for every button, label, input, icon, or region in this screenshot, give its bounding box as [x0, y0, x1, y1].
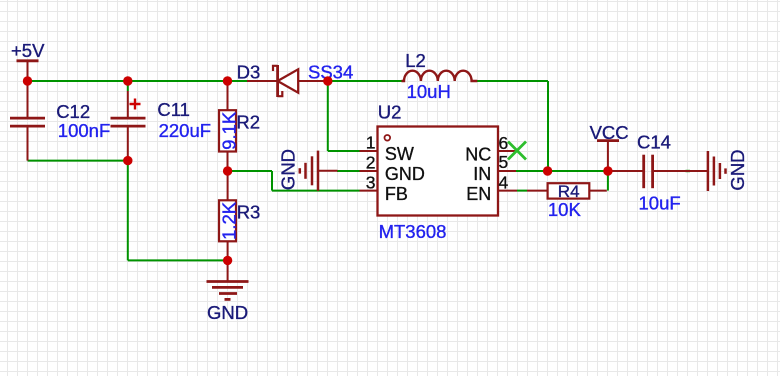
resistor R4 [527, 182, 607, 220]
wire GND to pin 2 [337, 170, 360, 172]
no-connect X on pin 6 [508, 142, 526, 160]
inductor L2 [402, 50, 478, 102]
svg-text:5: 5 [499, 152, 509, 172]
svg-text:NC: NC [465, 144, 491, 164]
power +5V [11, 40, 45, 81]
wire D3 to L2 [328, 80, 402, 82]
wire stub under C11 junction [127, 81, 129, 91]
wire IN node horizontal [515, 170, 608, 172]
svg-text:9.1K: 9.1K [218, 111, 239, 150]
junction IN node [543, 166, 552, 175]
svg-text:10uF: 10uF [639, 193, 681, 214]
wire L2 to corner [477, 80, 548, 82]
pin 6 NC [465, 133, 517, 165]
junction R2-R3 FB node [223, 166, 232, 175]
ground symbol right [708, 149, 748, 191]
svg-text:D3: D3 [237, 62, 261, 83]
svg-text:GND: GND [385, 164, 425, 184]
junction R2 top [223, 76, 232, 85]
junction VCC node [603, 166, 612, 175]
pin 4 EN [466, 172, 517, 204]
svg-text:1: 1 [366, 133, 376, 153]
svg-text:6: 6 [499, 133, 509, 153]
svg-text:GND: GND [727, 149, 748, 190]
wire FB node down [271, 171, 273, 191]
wire SS34 node down [327, 81, 329, 151]
wire FB node right [228, 170, 272, 172]
svg-text:R3: R3 [237, 201, 261, 222]
svg-text:10uH: 10uH [407, 81, 451, 102]
wire R4 to VCC node [607, 171, 609, 191]
svg-text:3: 3 [366, 172, 376, 192]
svg-text:IN: IN [473, 164, 491, 184]
op-amp U2 MT3608 body [378, 102, 499, 242]
resistor R2 [218, 81, 260, 171]
svg-text:C12: C12 [56, 101, 90, 122]
pin 3 FB [360, 172, 408, 204]
svg-text:+5V: +5V [11, 40, 45, 61]
capacitor C12 [10, 81, 110, 161]
ground symbol left of U2 [277, 149, 337, 191]
wire to R3 bottom [128, 259, 228, 261]
svg-text:100nF: 100nF [58, 120, 110, 141]
pin 5 IN [473, 152, 516, 184]
svg-text:C11: C11 [157, 99, 190, 120]
pin 2 GND [360, 153, 425, 184]
svg-text:U2: U2 [378, 102, 402, 123]
wire top rail +5V to D3 [28, 80, 248, 82]
junction R3 bottom [223, 256, 232, 265]
svg-text:VCC: VCC [590, 122, 629, 143]
svg-text:EN: EN [466, 184, 491, 204]
ground symbol bottom [207, 260, 249, 322]
pin 1 SW [360, 133, 414, 165]
svg-text:C14: C14 [637, 132, 671, 153]
wire to pin 3 FB [272, 190, 360, 192]
svg-text:220uF: 220uF [159, 120, 211, 141]
wire stub pin 4 [517, 190, 527, 192]
junction C11 top [123, 76, 132, 85]
svg-text:MT3608: MT3608 [379, 221, 447, 242]
capacitor C14 [608, 132, 708, 214]
wire corner down to IN node [547, 81, 549, 171]
junction C11 bottom [123, 156, 132, 165]
diode D3 SS34 [237, 61, 354, 97]
resistor R3 [218, 171, 260, 260]
svg-text:2: 2 [366, 153, 376, 173]
wire bottom left horizontal [28, 160, 128, 162]
junction +5V [23, 76, 32, 85]
wire to pin 1 SW [328, 150, 360, 152]
junction SS34 node [323, 76, 332, 85]
svg-text:1.2K: 1.2K [218, 201, 239, 240]
svg-text:GND: GND [207, 302, 248, 323]
svg-text:R2: R2 [236, 112, 260, 133]
capacitor C11 [111, 91, 212, 161]
wire stub C14 gnd [686, 170, 691, 172]
svg-text:FB: FB [385, 184, 408, 204]
svg-text:SW: SW [385, 144, 414, 164]
wire bottom left down [127, 161, 129, 261]
power VCC [590, 122, 629, 171]
svg-text:GND: GND [277, 149, 298, 190]
svg-text:4: 4 [499, 172, 509, 192]
svg-text:10K: 10K [548, 199, 582, 220]
svg-text:L2: L2 [405, 50, 426, 71]
